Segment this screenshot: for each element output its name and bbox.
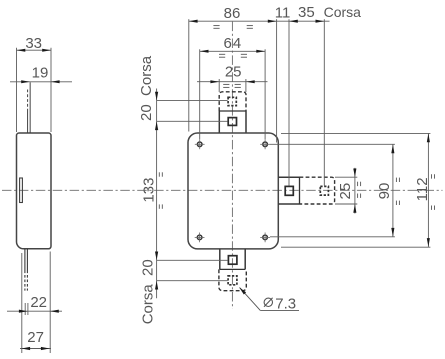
svg-text:27: 27 [27,329,44,346]
svg-text:25: 25 [337,183,354,200]
svg-text:Corsa: Corsa [324,4,362,20]
svg-text:19: 19 [32,64,49,81]
svg-text:22: 22 [30,294,47,311]
svg-text:86: 86 [224,5,241,22]
svg-text:11: 11 [275,5,291,22]
svg-text:133: 133 [141,178,158,203]
svg-text:25: 25 [225,63,242,80]
svg-text:90: 90 [376,183,393,200]
svg-text:35: 35 [298,4,315,21]
svg-text:20 Corsa: 20 Corsa [138,55,155,121]
svg-text:4: 4 [233,35,241,52]
svg-text:112: 112 [414,177,431,201]
svg-text:33: 33 [25,35,42,52]
svg-text:Corsa 20: Corsa 20 [139,259,156,324]
svg-text:6: 6 [224,35,232,52]
svg-text:7.3: 7.3 [275,296,296,313]
